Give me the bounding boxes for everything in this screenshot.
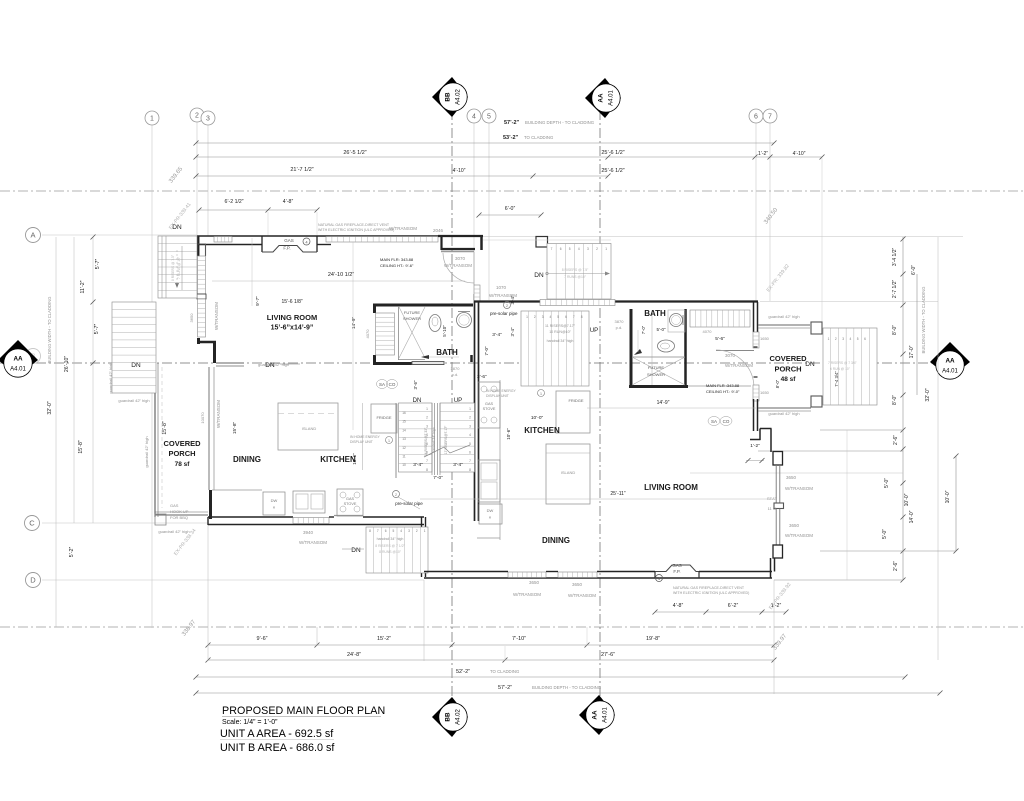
- svg-text:3870: 3870: [615, 319, 625, 324]
- svg-text:A4.02: A4.02: [456, 709, 462, 725]
- svg-text:AA: AA: [592, 710, 599, 720]
- svg-text:4: 4: [472, 113, 476, 120]
- wall B east jog: [750, 429, 772, 453]
- dim extension B north right: [760, 301, 938, 303]
- dishwasher B: [479, 504, 502, 524]
- svg-text:LIVING ROOM: LIVING ROOM: [267, 313, 317, 322]
- window A north (w/transom 2046): [326, 237, 438, 243]
- svg-text:7 RUNS @ 10”: 7 RUNS @ 10”: [177, 257, 181, 279]
- svg-text:25’-6 1/2”: 25’-6 1/2”: [601, 150, 624, 156]
- wall B living east upper corner: [773, 452, 783, 466]
- label in-home energy A: [350, 435, 393, 444]
- svg-text:1: 1: [828, 337, 830, 341]
- svg-text:3’-4”: 3’-4”: [413, 462, 423, 468]
- svg-text:2046: 2046: [433, 228, 444, 233]
- svg-text:3: 3: [587, 247, 589, 251]
- svg-text:7’-0”: 7’-0”: [484, 346, 489, 356]
- dim 25'-11 B: [420, 491, 768, 499]
- label DN stair W: [131, 362, 141, 369]
- svg-text:GAS: GAS: [485, 402, 493, 406]
- wall B east mid: [754, 399, 758, 431]
- svg-text:57’-2”: 57’-2”: [504, 120, 520, 126]
- svg-text:10’-0”: 10’-0”: [531, 415, 544, 421]
- svg-text:15’-2”: 15’-2”: [377, 636, 391, 642]
- dim text 6'-2 b: [728, 603, 739, 609]
- svg-text:UNIT B AREA - 686.0 sf: UNIT B AREA - 686.0 sf: [220, 742, 335, 754]
- dim ext A north verticals: [268, 212, 317, 236]
- label 10'-6 B rot: [506, 428, 511, 440]
- svg-text:GAS: GAS: [672, 563, 682, 568]
- label main flr B: [706, 383, 740, 394]
- dim text 10'-0 r3: [945, 490, 951, 503]
- svg-text:×: ×: [489, 515, 492, 520]
- svg-text:GAS: GAS: [284, 238, 294, 243]
- label 3940 w/transom: [299, 530, 327, 545]
- svg-text:WITH ELECTRIC IGNITION (ULC AP: WITH ELECTRIC IGNITION (ULC APPROVED): [673, 591, 749, 595]
- dim text 32'-0 right: [921, 287, 931, 402]
- svg-text:BUILDING DEPTH - TO CLADDING: BUILDING DEPTH - TO CLADDING: [532, 685, 602, 690]
- label 3650 wt w: [513, 580, 541, 597]
- bath A toilet: [429, 315, 441, 332]
- svg-text:7: 7: [551, 247, 553, 251]
- svg-text:guardrail 42” high: guardrail 42” high: [768, 411, 799, 416]
- svg-text:14: 14: [402, 428, 406, 432]
- svg-text:W/TRANSOM: W/TRANSOM: [785, 533, 813, 538]
- svg-text:25’-11”: 25’-11”: [610, 491, 626, 497]
- section line AA horizontal (dash-dot): [0, 362, 968, 364]
- dim text 10'-0 r1: [909, 345, 915, 358]
- dim vertical left 2: [73, 237, 75, 523]
- bath B future shower: [632, 330, 685, 385]
- svg-text:4: 4: [578, 247, 580, 251]
- label DN porch B: [805, 361, 815, 368]
- svg-text:CEILING HT.: 9’-0”: CEILING HT.: 9’-0”: [706, 389, 740, 394]
- svg-text:CO: CO: [723, 419, 730, 424]
- survey EX-PR-339.82: [766, 263, 791, 293]
- svg-text:21’-7 1/2”: 21’-7 1/2”: [290, 167, 313, 173]
- dim text 4'-8 top: [283, 199, 294, 205]
- svg-text:BB: BB: [445, 712, 452, 722]
- door A arc (3070 w/transom): [443, 252, 474, 283]
- dim line 4'-8/6'-2/1'-2 (B south): [653, 610, 789, 615]
- grid bubble B: [26, 349, 41, 364]
- stair A label UP: [454, 398, 462, 404]
- title PROPOSED MAIN FLOOR PLAN: [222, 705, 385, 717]
- stove A (GAS STOVE): [337, 489, 363, 516]
- dim text 57'-2 bottom: [498, 685, 602, 691]
- stair A break line: [424, 445, 470, 457]
- svg-text:FOR BBQ: FOR BBQ: [170, 515, 188, 520]
- window B 3650 lower: [776, 509, 780, 546]
- svg-text:DN: DN: [534, 272, 544, 279]
- stair A treads: [396, 403, 475, 478]
- svg-text:10’-0”: 10’-0”: [904, 493, 910, 506]
- door A threshold: [441, 251, 474, 253]
- svg-text:13: 13: [402, 437, 406, 441]
- svg-text:17’-0”: 17’-0”: [909, 345, 915, 358]
- grid line A horizontal: [42, 234, 197, 236]
- bath B toilet: [658, 340, 675, 352]
- dim text 2'-7 1/2 r: [892, 279, 898, 298]
- svg-text:5’-7”: 5’-7”: [95, 259, 101, 270]
- stair A label DN: [413, 398, 422, 404]
- dim ext bottom verticals: [208, 430, 847, 694]
- porch B guardrail bottom: [758, 408, 811, 416]
- dim text 52'-2 bottom: [456, 669, 520, 675]
- survey text 339.65: [168, 166, 184, 185]
- svg-text:A4.01: A4.01: [10, 367, 26, 373]
- dim text 19'-8 bottom: [646, 636, 660, 642]
- wall A southwest corner: [209, 490, 212, 519]
- svg-text:1’-2”: 1’-2”: [758, 151, 768, 157]
- svg-text:BUILDING WIDTH - TO CLADDING: BUILDING WIDTH - TO CLADDING: [921, 287, 926, 354]
- grid bubble 4: [467, 109, 481, 123]
- svg-text:5’-7”: 5’-7”: [94, 324, 100, 335]
- label in-home energy B: [486, 389, 545, 398]
- svg-text:1: 1: [424, 529, 426, 533]
- svg-text:MAIN FLR :343.88: MAIN FLR :343.88: [706, 383, 740, 388]
- stair B north ext: [483, 240, 611, 299]
- svg-text:A4.01: A4.01: [942, 369, 958, 375]
- survey text 338.97: [181, 619, 197, 638]
- svg-text:5’-0”: 5’-0”: [884, 478, 890, 488]
- section marker AA/A4.01 top: [585, 78, 621, 118]
- svg-text:15’-6 1/8”: 15’-6 1/8”: [281, 299, 302, 305]
- svg-text:IN HOME ENERGY: IN HOME ENERGY: [486, 389, 517, 393]
- svg-text:SHOWER: SHOWER: [403, 316, 421, 321]
- porch A guardrail west: [155, 363, 158, 517]
- svg-text:10’-6”: 10’-6”: [506, 428, 511, 440]
- section line BB vertical (dash-dot): [451, 110, 453, 703]
- dim line bottom 3: [194, 675, 908, 680]
- svg-text:1’-2”: 1’-2”: [750, 443, 760, 449]
- grid bubble A: [26, 228, 41, 243]
- svg-text:7 RISERS @ 7 3/4”: 7 RISERS @ 7 3/4”: [828, 361, 857, 365]
- svg-text:SA: SA: [711, 419, 717, 424]
- svg-text:6’-2 1/2”: 6’-2 1/2”: [224, 199, 243, 205]
- survey text EX-PR-339.41: [168, 202, 193, 231]
- svg-text:5’-0”: 5’-0”: [882, 529, 888, 539]
- svg-text:DN: DN: [265, 362, 275, 369]
- svg-text:5: 5: [569, 247, 571, 251]
- svg-text:14’-9”: 14’-9”: [657, 400, 670, 406]
- svg-text:PROPOSED MAIN FLOOR PLAN: PROPOSED MAIN FLOOR PLAN: [222, 705, 385, 717]
- svg-text:3940: 3940: [303, 530, 314, 535]
- svg-text:DW: DW: [487, 508, 494, 513]
- svg-text:8 RISERS @ 7.5”: 8 RISERS @ 7.5”: [171, 255, 175, 281]
- svg-text:7: 7: [469, 459, 471, 463]
- label KITCHEN B: [524, 415, 560, 435]
- section marker AA/A4.01 bottom: [579, 695, 615, 735]
- svg-text:STOVE: STOVE: [344, 502, 357, 506]
- svg-text:BUILDING DEPTH - TO CLADDING: BUILDING DEPTH - TO CLADDING: [525, 120, 595, 125]
- svg-text:6: 6: [385, 529, 387, 533]
- svg-text:5: 5: [557, 315, 559, 319]
- svg-text:KITCHEN: KITCHEN: [320, 455, 356, 464]
- svg-text:27’-6”: 27’-6”: [601, 652, 615, 658]
- svg-text:26’-10”: 26’-10”: [64, 356, 70, 372]
- svg-text:2: 2: [195, 112, 199, 119]
- svg-text:7: 7: [768, 113, 772, 120]
- label 1070 w/transom: [489, 285, 517, 298]
- dishwasher A: [263, 492, 285, 515]
- dim text 8'-0 r2: [892, 395, 898, 405]
- window B east 1650 lower: [753, 385, 770, 401]
- dim text 3'-4 1/2 r: [892, 247, 898, 266]
- svg-text:6: 6: [560, 247, 562, 251]
- svg-text:2’-6”: 2’-6”: [893, 435, 899, 445]
- stair B riser numbers: [526, 315, 583, 319]
- svg-text:2’-7 1/2”: 2’-7 1/2”: [892, 279, 898, 298]
- svg-text:24’-10 1/2”: 24’-10 1/2”: [328, 272, 354, 278]
- title scale: [222, 719, 278, 726]
- grid bubble 6: [749, 109, 763, 123]
- wall A south e: [329, 516, 424, 518]
- dim text 21'-7 1/2: [290, 167, 313, 173]
- svg-text:CEILING HT.: 9’-6”: CEILING HT.: 9’-6”: [380, 263, 414, 268]
- svg-text:1: 1: [526, 315, 528, 319]
- svg-text:12: 12: [402, 446, 406, 450]
- porch A roof dashed: [161, 367, 163, 508]
- svg-text:15’-8”: 15’-8”: [78, 440, 84, 454]
- dim text 11'-2: [80, 280, 86, 293]
- grid bubble C: [25, 516, 40, 531]
- svg-text:11: 11: [402, 455, 406, 459]
- svg-text:4070: 4070: [703, 329, 713, 334]
- window party 1070: [474, 285, 480, 301]
- svg-text:5’-6”: 5’-6”: [715, 336, 725, 342]
- svg-text:8’-0”: 8’-0”: [892, 395, 898, 405]
- grid bubble 3: [201, 111, 215, 125]
- dim text 15'-8 left: [78, 440, 84, 454]
- svg-text:handrail 34” high: handrail 34” high: [547, 339, 574, 343]
- label 3650 wt e: [568, 582, 596, 598]
- svg-text:6’-2”: 6’-2”: [728, 603, 739, 609]
- svg-text:14’-9”: 14’-9”: [351, 316, 357, 329]
- section marker BB/A4.02 top: [432, 77, 468, 117]
- svg-text:6: 6: [754, 113, 758, 120]
- svg-text:MAIN FLR: 343.88: MAIN FLR: 343.88: [380, 257, 414, 262]
- svg-text:1: 1: [150, 115, 154, 122]
- dim vertical left 3: [91, 235, 96, 524]
- party wall A/B: [475, 294, 479, 521]
- label 5'-6 B: [715, 336, 725, 342]
- label 15'-8 dining rot: [232, 421, 238, 434]
- stair A riser numbers: [402, 407, 471, 472]
- svg-text:15: 15: [402, 420, 406, 424]
- stair B east porch: [823, 328, 877, 405]
- svg-text:8: 8: [426, 468, 428, 472]
- window A west (3650 x2): [189, 256, 219, 337]
- dim interior 9'-7 rot: [252, 238, 261, 306]
- stair A northwest: [158, 236, 197, 298]
- svg-text:CO: CO: [389, 382, 396, 387]
- dim text 25'-6 1/2 a: [601, 150, 624, 156]
- grid line D horizontal: [42, 579, 424, 581]
- svg-text:15’-8”: 15’-8”: [232, 421, 238, 434]
- label DINING A: [233, 455, 261, 464]
- title unit A area: [220, 728, 334, 740]
- svg-text:4’-10”: 4’-10”: [453, 168, 466, 174]
- label LIVING ROOM A: [267, 299, 317, 332]
- wall B south center: [597, 571, 655, 573]
- dim text 27'-6 bottom: [601, 652, 615, 658]
- svg-text:DW: DW: [271, 498, 278, 503]
- svg-text:PORCH: PORCH: [774, 365, 801, 374]
- svg-text:11’-2”: 11’-2”: [80, 280, 86, 293]
- grid bubble 1: [145, 111, 159, 125]
- wall A/B step down: [422, 517, 426, 577]
- dim line 6'-0 (party north): [477, 213, 544, 218]
- label 3650 lower: [785, 523, 813, 538]
- svg-text:W/TRANSOM: W/TRANSOM: [725, 363, 753, 368]
- svg-text:10’-0”: 10’-0”: [945, 490, 951, 503]
- label COVERED PORCH B: [769, 354, 807, 383]
- svg-text:COVERED: COVERED: [769, 354, 807, 363]
- porch B guardrail top: [758, 314, 810, 328]
- wall A west jog: [197, 338, 216, 363]
- grid line 4-5 vertical: [474, 122, 489, 300]
- svg-text:7’-10”: 7’-10”: [512, 636, 526, 642]
- svg-text:guardrail 42” high: guardrail 42” high: [118, 398, 149, 403]
- label SA CO A: [377, 380, 398, 389]
- dim line bottom 1: [206, 643, 777, 648]
- note natural gas fireplace B: [673, 586, 749, 595]
- svg-text:8 RISERS @ 7.5”: 8 RISERS @ 7.5”: [562, 268, 589, 272]
- dim text 26'-5 1/2: [343, 150, 366, 156]
- svg-text:9’-6”: 9’-6”: [256, 636, 267, 642]
- svg-text:15’-8”: 15’-8”: [162, 421, 168, 435]
- wall A west upper: [198, 236, 206, 256]
- svg-text:1070: 1070: [496, 285, 507, 290]
- svg-text:1: 1: [388, 439, 390, 443]
- dim text 1'-2 b: [771, 603, 782, 609]
- wall A north e (vestibule top): [438, 235, 483, 237]
- svg-text:BATH: BATH: [436, 348, 458, 357]
- dim text 4'-10 top right: [793, 151, 806, 157]
- svg-text:BB: BB: [445, 92, 452, 102]
- svg-text:4: 4: [850, 337, 852, 341]
- wall B east upper: [754, 302, 758, 332]
- grid ext x822: [821, 158, 823, 322]
- dim text 6'-2 1/2: [224, 199, 243, 205]
- label 1'-2 jog: [746, 443, 765, 463]
- dim text 6'-0: [505, 206, 516, 212]
- label pre-solar pipe A: [393, 491, 424, 510]
- note natural gas fireplace A: [318, 223, 394, 232]
- svg-text:3650: 3650: [789, 523, 800, 528]
- svg-text:p.d.: p.d.: [616, 325, 623, 330]
- label guardrail A bottom: [158, 529, 189, 534]
- svg-text:53’-2”: 53’-2”: [503, 135, 519, 141]
- svg-text:10: 10: [402, 463, 406, 467]
- svg-text:pre-solar pipe: pre-solar pipe: [490, 311, 518, 316]
- svg-text:3’-6”: 3’-6”: [477, 374, 487, 380]
- svg-text:3: 3: [408, 529, 410, 533]
- svg-text:A: A: [30, 231, 35, 240]
- wall A north w: [197, 236, 483, 252]
- svg-text:3’-6”: 3’-6”: [413, 380, 418, 390]
- svg-text:W/TRANSOM: W/TRANSOM: [513, 592, 541, 597]
- svg-text:W/TRANSOM: W/TRANSOM: [444, 263, 472, 268]
- svg-text:6: 6: [565, 315, 567, 319]
- label LIVING ROOM B: [644, 483, 698, 492]
- svg-text:IN HOME ENERGY: IN HOME ENERGY: [350, 435, 381, 439]
- svg-text:BATH: BATH: [644, 309, 666, 318]
- seat B: [767, 496, 784, 511]
- dim vertical right 1: [901, 237, 906, 583]
- svg-text:WITH ELECTRIC IGNITION (ULC AP: WITH ELECTRIC IGNITION (ULC APPROVED): [318, 228, 394, 232]
- label 3'-6 A: [413, 380, 418, 390]
- svg-text:F.P.: F.P.: [673, 569, 680, 574]
- svg-text:SA: SA: [379, 382, 385, 387]
- title unit B area: [220, 742, 335, 754]
- guardrail A porch entry: [216, 362, 289, 367]
- svg-text:W/TRANSOM: W/TRANSOM: [389, 226, 417, 231]
- svg-text:3’-4 1/2”: 3’-4 1/2”: [892, 247, 898, 266]
- svg-text:8’-0”: 8’-0”: [775, 379, 780, 388]
- svg-text:4: 4: [550, 315, 552, 319]
- dim line top a: [194, 141, 777, 146]
- dim text 5'-2 left: [69, 547, 75, 558]
- svg-text:×: ×: [273, 505, 276, 510]
- grid bubble 5: [482, 109, 496, 123]
- svg-text:DISPLAY UNIT: DISPLAY UNIT: [486, 394, 509, 398]
- dim vertical left 1: [55, 237, 57, 627]
- svg-text:5’-0”: 5’-0”: [656, 327, 666, 332]
- svg-text:4: 4: [400, 529, 402, 533]
- svg-text:16: 16: [402, 411, 406, 415]
- dim vertical right 3: [937, 237, 939, 660]
- svg-text:FUTURE: FUTURE: [404, 310, 421, 315]
- property line (north, dash-dot): [0, 190, 1024, 192]
- svg-text:4’-8”: 4’-8”: [283, 199, 294, 205]
- grid line 6-7 vertical: [756, 123, 770, 301]
- svg-text:6’-0”: 6’-0”: [505, 206, 516, 212]
- svg-text:24’-8”: 24’-8”: [347, 652, 361, 658]
- bath A sink: [457, 312, 472, 328]
- dim text 9'-6 bottom: [256, 636, 267, 642]
- svg-text:3: 3: [469, 424, 471, 428]
- svg-text:ISLAND: ISLAND: [302, 426, 317, 431]
- svg-text:5’-2”: 5’-2”: [69, 547, 75, 558]
- svg-text:AA: AA: [13, 356, 23, 363]
- stair A handrail notes: [424, 426, 448, 457]
- label 3070 B: [725, 353, 753, 368]
- svg-text:DN: DN: [805, 361, 815, 368]
- svg-text:W/TRANSOM: W/TRANSOM: [299, 540, 327, 545]
- section line AA vertical (dash-dot): [599, 110, 601, 700]
- label main flr A: [380, 257, 414, 268]
- stair A south ext: [366, 527, 428, 573]
- dim ext porch B bottom: [690, 472, 903, 474]
- stair B treads: [521, 311, 589, 386]
- label DN stair NW: [172, 224, 182, 290]
- bath A window 4070: [365, 313, 395, 355]
- svg-text:7’-0”: 7’-0”: [433, 475, 443, 481]
- dim text 7'-10 bottom: [512, 636, 526, 642]
- window B south 3650 w: [508, 572, 546, 578]
- label DINING B: [542, 536, 570, 545]
- dim text 15'-2 bottom: [377, 636, 391, 642]
- svg-text:1650: 1650: [760, 336, 770, 341]
- porch A guardrail south: [155, 512, 208, 515]
- dim ext right a: [758, 450, 903, 452]
- label 5'-0 bath B: [641, 325, 666, 334]
- svg-text:3: 3: [842, 337, 844, 341]
- label BATH A: [436, 348, 458, 357]
- dim text 8'-0 r1: [892, 325, 898, 335]
